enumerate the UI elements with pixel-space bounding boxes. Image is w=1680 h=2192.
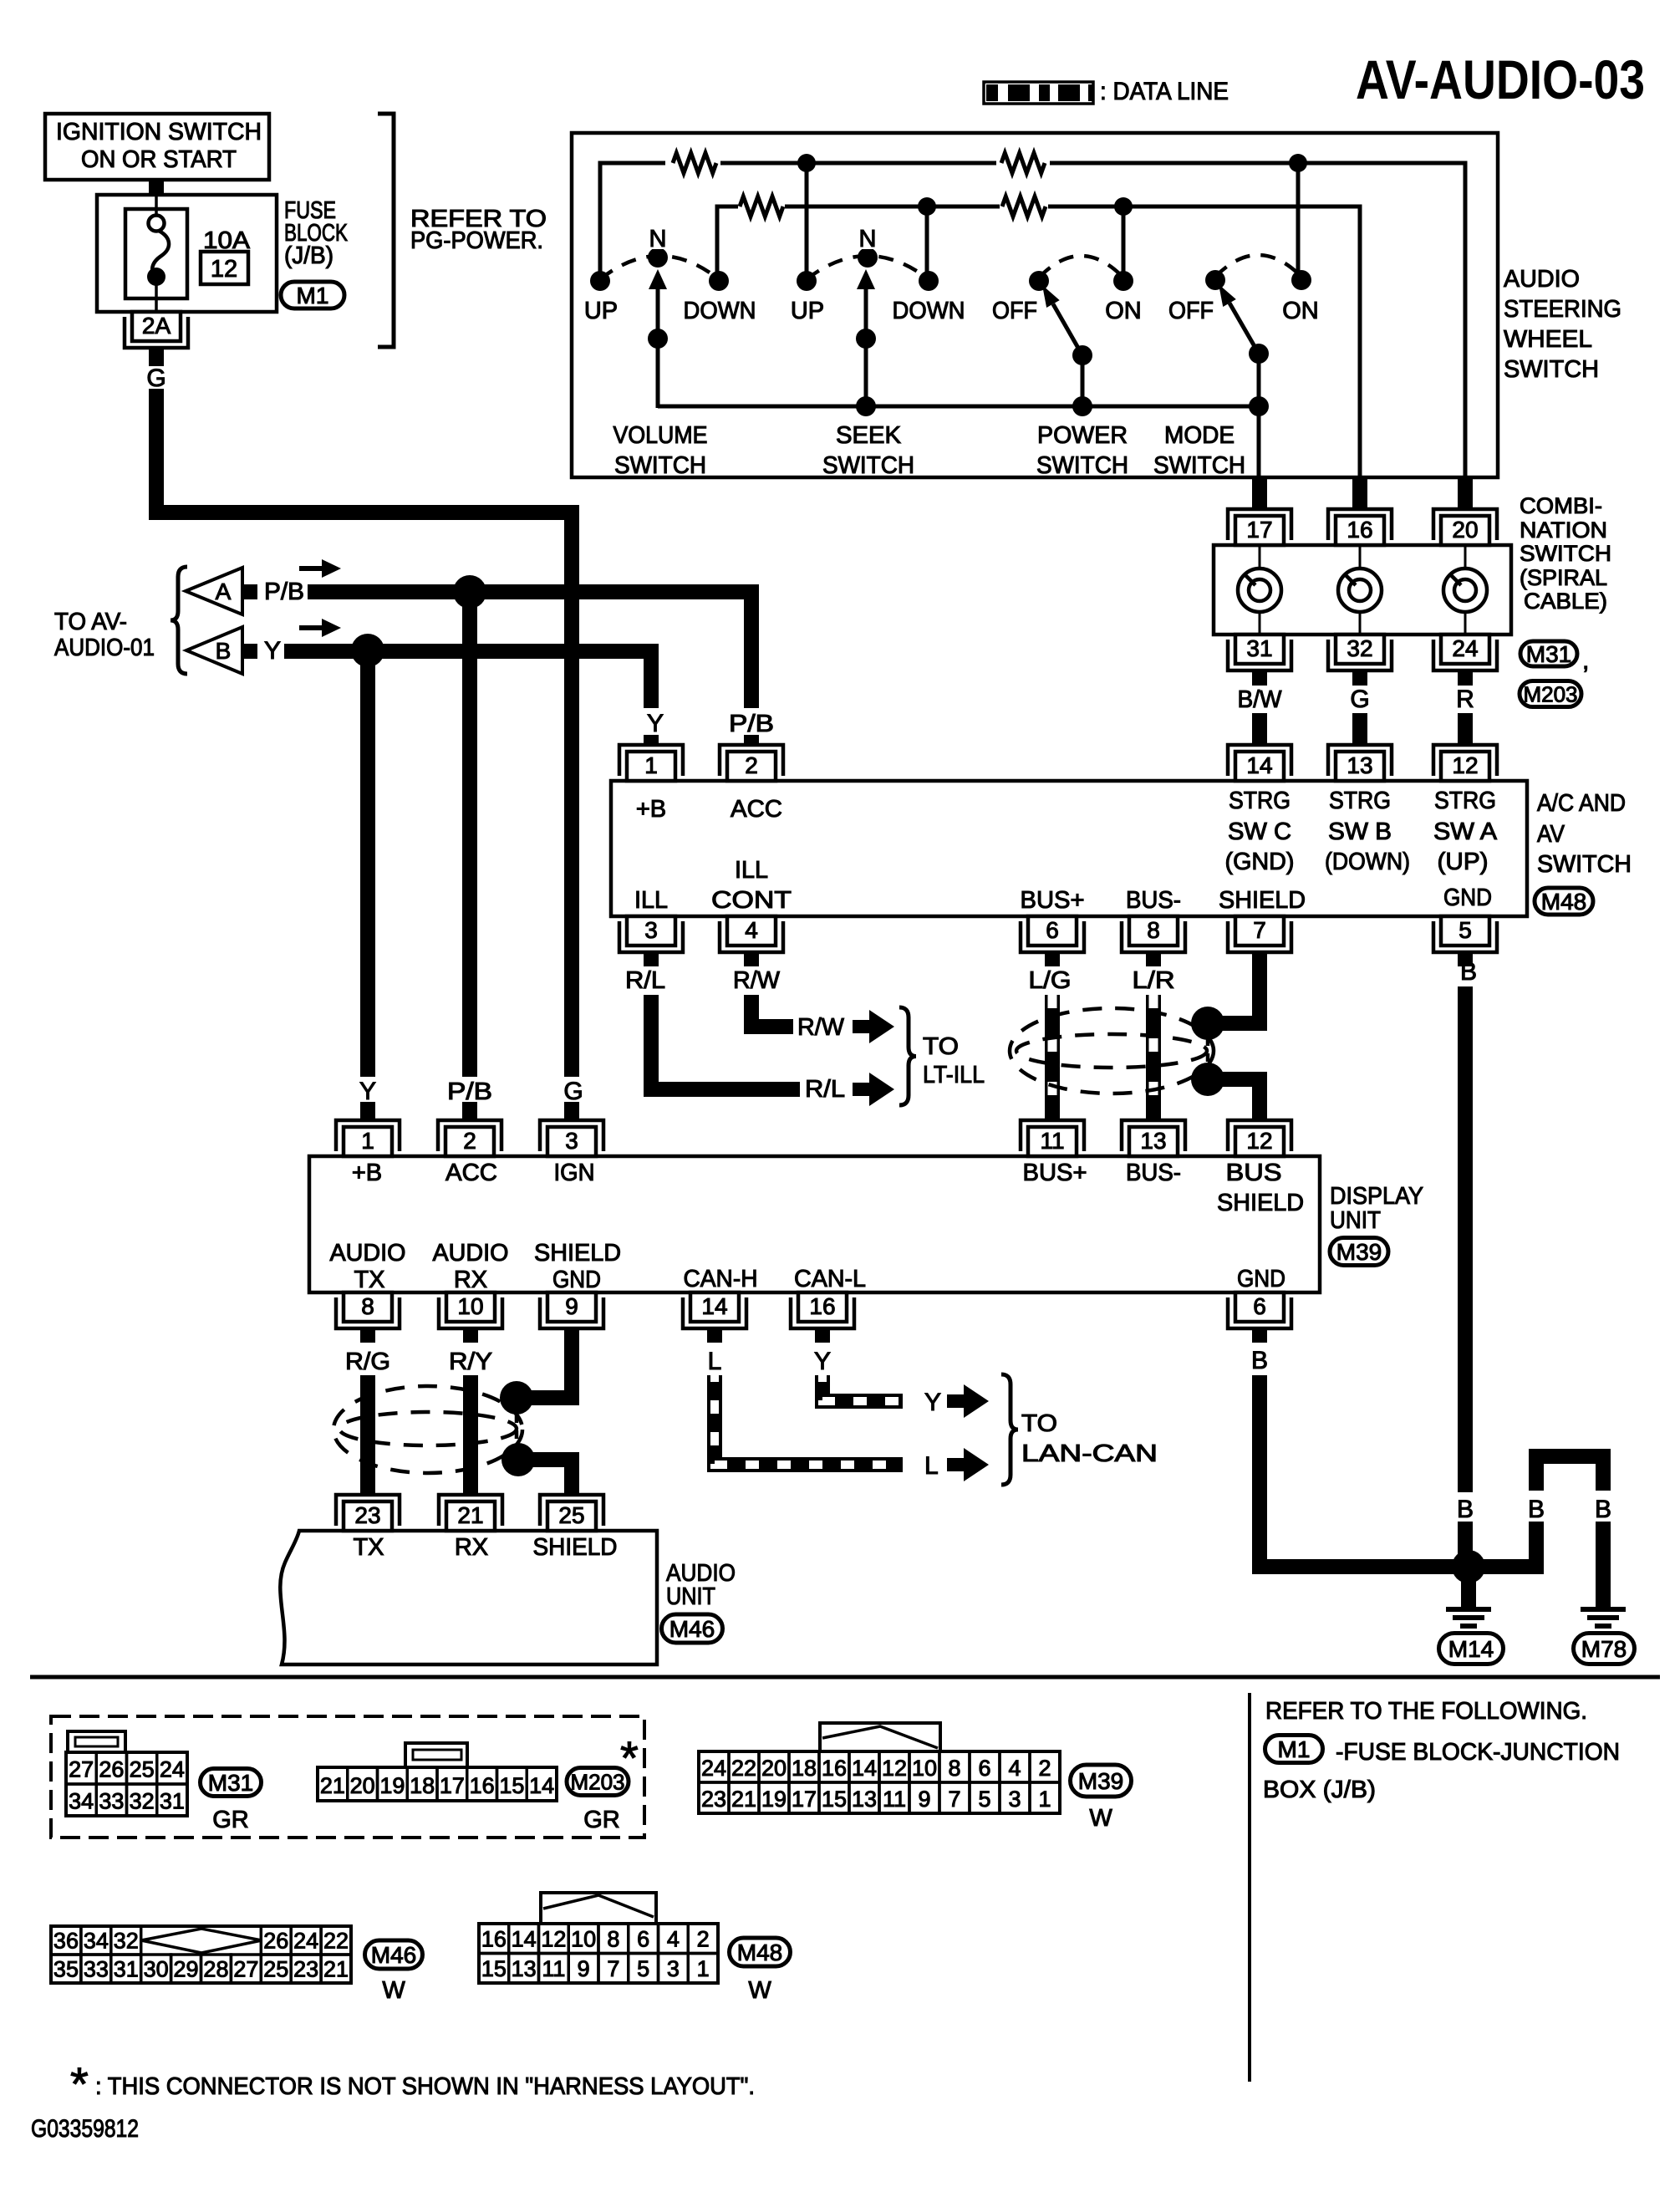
svg-text:TO: TO [923, 1033, 959, 1060]
svg-text:Y: Y [264, 637, 281, 665]
dashed link shield junctions [1206, 1037, 1210, 1067]
pin 13 M48 [1328, 745, 1392, 776]
connector M1 oval [281, 282, 344, 308]
svg-text:33: 33 [84, 1957, 109, 1982]
connector M48 label oval [730, 1938, 791, 1966]
svg-text:+B: +B [636, 796, 666, 823]
data line CAN-L [822, 1375, 903, 1401]
power switch lever [1053, 304, 1082, 355]
svg-text:17: 17 [1246, 517, 1272, 543]
svg-text:UP: UP [584, 298, 618, 324]
svg-text:8: 8 [1147, 917, 1160, 943]
svg-text:32: 32 [130, 1789, 155, 1814]
junction shield lower [1191, 1063, 1224, 1096]
svg-text:(DOWN): (DOWN) [1325, 849, 1410, 875]
arrow to LT-ILL lower [853, 1083, 871, 1096]
svg-text:L: L [708, 1348, 722, 1375]
svg-text:G: G [146, 364, 165, 392]
svg-text:22: 22 [731, 1756, 756, 1781]
svg-text:RX: RX [454, 1267, 487, 1293]
connector arrow A [186, 568, 242, 614]
svg-text:18: 18 [792, 1756, 817, 1781]
svg-text:P/B: P/B [447, 1078, 492, 1105]
svg-text:IGNITION SWITCH: IGNITION SWITCH [56, 119, 262, 145]
wire ignition to fuse block [149, 178, 164, 196]
svg-text:GND: GND [552, 1267, 601, 1293]
svg-text:24: 24 [701, 1756, 726, 1781]
svg-text:STRG: STRG [1329, 788, 1391, 814]
display unit box M39 [309, 1156, 1320, 1292]
svg-text:SW B: SW B [1328, 818, 1392, 845]
svg-text:SHIELD: SHIELD [533, 1534, 618, 1561]
svg-text:(SPIRAL: (SPIRAL [1520, 565, 1607, 590]
svg-text:11: 11 [883, 1787, 906, 1812]
svg-text:LT-ILL: LT-ILL [923, 1062, 985, 1088]
svg-text:34: 34 [84, 1929, 109, 1954]
svg-text:DISPLAY: DISPLAY [1330, 1183, 1423, 1210]
svg-text:AUDIO-01: AUDIO-01 [54, 635, 155, 661]
pin 23 audio unit [336, 1495, 400, 1526]
svg-text:ACC: ACC [731, 796, 782, 823]
svg-text:11: 11 [1040, 1128, 1064, 1154]
pin 14 display [683, 1297, 746, 1328]
svg-text:ON: ON [1282, 298, 1319, 324]
volume common [648, 329, 668, 349]
seek switch arc [807, 256, 929, 279]
svg-text:UNIT: UNIT [666, 1583, 715, 1610]
svg-text:3: 3 [1008, 1787, 1021, 1812]
svg-text:SWITCH: SWITCH [1036, 452, 1128, 479]
svg-text:M14: M14 [1448, 1636, 1494, 1662]
svg-text:B: B [1595, 1496, 1611, 1523]
svg-text:14: 14 [701, 1293, 727, 1319]
svg-text:BUS: BUS [1226, 1160, 1282, 1186]
svg-text:M39: M39 [1336, 1239, 1382, 1265]
svg-text:BUS+: BUS+ [1021, 887, 1085, 914]
pin 16 display [791, 1297, 854, 1328]
svg-text:31: 31 [160, 1789, 185, 1814]
data line CAN-H [715, 1375, 903, 1465]
wire R/Y to audio pin 21 [463, 1375, 478, 1496]
svg-text:6: 6 [978, 1756, 990, 1781]
svg-text:B: B [1457, 1496, 1474, 1523]
svg-text:B: B [1528, 1496, 1545, 1523]
junction bus A seek [797, 154, 816, 172]
svg-text:-FUSE BLOCK-JUNCTION: -FUSE BLOCK-JUNCTION [1336, 1739, 1620, 1766]
junction audio shield lower [501, 1443, 535, 1476]
svg-text:SWITCH: SWITCH [1504, 356, 1599, 383]
svg-text:P/B: P/B [729, 711, 774, 737]
svg-text:15: 15 [822, 1787, 847, 1812]
mode switch lever [1229, 303, 1259, 354]
svg-text:28: 28 [203, 1957, 228, 1982]
svg-text:16: 16 [809, 1293, 835, 1319]
power switch contacts [1029, 271, 1049, 291]
connector M46 oval [662, 1614, 723, 1643]
svg-text:B: B [1251, 1347, 1268, 1374]
svg-text:25: 25 [130, 1757, 155, 1782]
svg-text:POWER: POWER [1037, 422, 1128, 449]
pin 32 combination switch [1328, 640, 1392, 670]
svg-text:2: 2 [697, 1927, 710, 1952]
connector M48 oval [1535, 888, 1593, 915]
svg-text:STRG: STRG [1229, 788, 1291, 814]
svg-text:R/L: R/L [805, 1076, 845, 1103]
svg-text:STEERING: STEERING [1504, 296, 1621, 323]
svg-text:16: 16 [481, 1927, 507, 1952]
svg-text:GR: GR [212, 1807, 249, 1833]
svg-text:13: 13 [1347, 752, 1372, 778]
svg-text:OFF: OFF [1168, 298, 1214, 324]
svg-text:13: 13 [1140, 1128, 1166, 1154]
wire stub pin 4 [744, 952, 759, 966]
svg-text:4: 4 [745, 917, 758, 943]
svg-text:23: 23 [701, 1787, 726, 1812]
svg-text:27: 27 [233, 1957, 258, 1982]
svg-text:STRG: STRG [1434, 788, 1496, 814]
shield ellipse TX/RX pair [333, 1386, 522, 1473]
ground M14 oval [1439, 1634, 1504, 1664]
wire seek DOWN riser [925, 206, 929, 279]
svg-text:29: 29 [174, 1957, 199, 1982]
svg-text:OFF: OFF [992, 298, 1037, 324]
wire B from display GND [1260, 1375, 1455, 1567]
svg-text:24: 24 [1452, 635, 1478, 661]
svg-text:16: 16 [470, 1773, 495, 1798]
wire steering to pin 20 [1458, 477, 1473, 510]
svg-text:10: 10 [457, 1293, 483, 1319]
svg-text:31: 31 [1246, 635, 1272, 661]
svg-text:COMBI-: COMBI- [1520, 493, 1602, 518]
arrow to LT-ILL upper [853, 1020, 871, 1033]
svg-text:G: G [1350, 686, 1369, 713]
svg-text:24: 24 [293, 1929, 318, 1954]
pin 6 M48 [1021, 921, 1084, 952]
svg-text:20: 20 [350, 1773, 375, 1798]
svg-text:23: 23 [354, 1502, 380, 1528]
svg-text:22: 22 [323, 1929, 349, 1954]
mode switch arc [1215, 255, 1301, 277]
svg-text:L: L [924, 1452, 939, 1480]
wire B loop to M78 [1482, 1522, 1536, 1567]
arrow direction P/B [299, 566, 329, 571]
svg-text:13: 13 [852, 1787, 877, 1812]
svg-text:12: 12 [211, 256, 237, 283]
wire P/B to ACC pin 2 of M48 [744, 735, 759, 746]
wire P/B down to display ACC [462, 592, 477, 1077]
A/C and AV switch box M48 [611, 781, 1527, 916]
svg-text:13: 13 [512, 1956, 537, 1981]
resistor R-B2 [1000, 192, 1048, 221]
wire steering to pin 17 [1252, 477, 1267, 510]
ground symbol M78 [1581, 1607, 1626, 1612]
svg-text:BUS-: BUS- [1126, 887, 1181, 914]
svg-text:21: 21 [457, 1502, 483, 1528]
wire BUS+ to display pin 11 (data line) [1045, 995, 1060, 1121]
svg-text:18: 18 [410, 1773, 435, 1798]
fuse block box M1 [97, 195, 277, 312]
svg-text:TO AV-: TO AV- [54, 609, 127, 635]
svg-text:ILL: ILL [634, 887, 668, 914]
connector arrow B [186, 627, 242, 674]
svg-text:19: 19 [761, 1787, 787, 1812]
svg-text:12: 12 [882, 1756, 907, 1781]
wire B from M48 GND [1458, 986, 1473, 1492]
audio unit box M46 [280, 1531, 657, 1664]
svg-text:ILL: ILL [735, 857, 768, 884]
svg-text:UP: UP [791, 298, 824, 324]
svg-text:M203: M203 [570, 1769, 624, 1794]
svg-text:16: 16 [822, 1756, 847, 1781]
svg-text:*: * [70, 2057, 89, 2110]
resistor R-A2 [996, 149, 1050, 177]
pin 3 display [540, 1120, 603, 1151]
svg-text:32: 32 [1347, 635, 1372, 661]
resistor R-B1 [738, 192, 785, 221]
svg-text:TX: TX [354, 1267, 384, 1293]
junction bus B power [1114, 197, 1133, 216]
seek common [856, 329, 876, 349]
svg-text:15: 15 [499, 1773, 524, 1798]
svg-text:16: 16 [1347, 517, 1372, 543]
svg-text:CAN-H: CAN-H [684, 1266, 758, 1292]
ground junction dot [1452, 1550, 1485, 1583]
junction power common [1072, 396, 1092, 416]
svg-text:31: 31 [114, 1957, 139, 1982]
svg-text:34: 34 [69, 1789, 94, 1814]
pin 11 display [1021, 1120, 1084, 1151]
pin 13 display [1122, 1120, 1185, 1151]
svg-text:GR: GR [583, 1807, 620, 1833]
wire switch common bus [658, 405, 1259, 409]
wire G from fuse to display unit IGN [156, 389, 572, 1077]
svg-text:7: 7 [607, 1956, 619, 1981]
svg-text:24: 24 [160, 1757, 185, 1782]
svg-text:GND: GND [1237, 1266, 1285, 1292]
wire stub pin 6 [1045, 952, 1060, 966]
svg-text:B/W: B/W [1238, 686, 1283, 713]
arrow to LAN-CAN upper [947, 1394, 965, 1408]
svg-text:M39: M39 [1078, 1768, 1123, 1794]
pin 3 M48 [619, 921, 683, 952]
svg-text:7: 7 [1253, 917, 1266, 943]
wire stub P/B to display pin 2 [462, 1102, 477, 1121]
svg-text:Y: Y [647, 710, 664, 737]
resistor R-A1 [665, 149, 720, 177]
svg-text:15: 15 [481, 1956, 507, 1981]
pin 21 audio unit [439, 1495, 502, 1526]
wire stub pin 14 [707, 1328, 722, 1343]
svg-text:3: 3 [644, 917, 658, 943]
spiral cable symbol 1 [1259, 545, 1261, 568]
svg-text:LAN-CAN: LAN-CAN [1021, 1440, 1158, 1467]
svg-text:SW A: SW A [1433, 818, 1498, 845]
svg-text:A: A [216, 579, 232, 604]
svg-text:: DATA LINE: : DATA LINE [1100, 78, 1229, 105]
svg-text:1: 1 [361, 1128, 374, 1154]
svg-text:ON OR START: ON OR START [81, 146, 237, 173]
svg-text:M46: M46 [669, 1616, 715, 1642]
svg-text:2: 2 [1038, 1756, 1051, 1781]
svg-text:M78: M78 [1581, 1636, 1627, 1662]
svg-text:WHEEL: WHEEL [1504, 326, 1592, 353]
svg-text:M31: M31 [208, 1770, 253, 1796]
svg-text:Y: Y [924, 1389, 941, 1416]
svg-text:21: 21 [320, 1773, 345, 1798]
power switch arc [1039, 256, 1123, 278]
svg-text:3: 3 [565, 1128, 578, 1154]
dashed link audio shield junctions [515, 1415, 519, 1445]
dashed connector group box [51, 1716, 644, 1838]
svg-text:8: 8 [948, 1756, 960, 1781]
svg-text:W: W [382, 1977, 405, 2004]
svg-text:CAN-L: CAN-L [794, 1266, 866, 1292]
svg-text:9: 9 [565, 1293, 578, 1319]
connector M203 label oval [567, 1768, 629, 1796]
svg-text:6: 6 [637, 1927, 649, 1952]
svg-text:AUDIO: AUDIO [433, 1240, 509, 1267]
wire stub pin 6 display [1252, 1328, 1267, 1343]
wire stub G to display pin 3 [564, 1102, 579, 1121]
shield ellipse BUS pair [1010, 1008, 1214, 1093]
svg-text:Y: Y [814, 1348, 831, 1375]
svg-text:SEEK: SEEK [836, 422, 902, 449]
svg-text:21: 21 [323, 1957, 349, 1982]
svg-text:G: G [563, 1078, 583, 1105]
svg-text:R/Y: R/Y [449, 1348, 492, 1375]
svg-text:BUS-: BUS- [1126, 1160, 1181, 1186]
svg-text:W: W [1089, 1805, 1112, 1832]
wire seek UP riser [805, 163, 809, 279]
svg-text:(GND): (GND) [1225, 849, 1295, 875]
junction audio shield upper [500, 1381, 533, 1415]
wire R/W to LT-ILL [751, 995, 793, 1027]
svg-text:G03359812: G03359812 [31, 2115, 139, 2143]
wire shield junction to audio pin 25 [518, 1460, 572, 1496]
wire B loop top [1536, 1456, 1603, 1491]
label N volume [644, 224, 672, 249]
fuse number 12 box [201, 252, 248, 284]
fuse F12 symbol [125, 209, 187, 298]
svg-text:2A: 2A [142, 313, 171, 339]
svg-text:CONT: CONT [711, 887, 792, 914]
svg-text:(J/B): (J/B) [284, 242, 333, 269]
svg-text:SWITCH: SWITCH [614, 452, 706, 479]
svg-text:B: B [1460, 958, 1477, 986]
mode common [1249, 344, 1269, 364]
svg-text:12: 12 [1246, 1128, 1272, 1154]
wire stub below 2A [149, 348, 164, 366]
svg-text:25: 25 [263, 1957, 288, 1982]
pin 2A of fuse block [125, 317, 188, 348]
brace TO LAN-CAN [1001, 1374, 1018, 1485]
wire stub pin 10 [463, 1328, 478, 1343]
svg-text:12: 12 [541, 1927, 566, 1952]
pin 2 display [438, 1120, 501, 1151]
svg-text:7: 7 [948, 1787, 960, 1812]
connector M31 label oval [201, 1769, 262, 1797]
svg-text:5: 5 [1459, 917, 1472, 943]
mode switch contacts [1205, 270, 1225, 290]
junction shield upper [1191, 1007, 1224, 1040]
svg-text:14: 14 [512, 1927, 537, 1952]
svg-text:CABLE): CABLE) [1524, 589, 1607, 614]
svg-text:NATION: NATION [1520, 517, 1607, 543]
svg-text:M31: M31 [1526, 641, 1571, 667]
svg-text:6: 6 [1253, 1293, 1266, 1319]
connector M31 pin grid [68, 1731, 125, 1753]
svg-text:: THIS CONNECTOR IS NOT SHOWN: : THIS CONNECTOR IS NOT SHOWN IN "HARNES… [95, 2073, 755, 2100]
svg-text:N: N [859, 226, 877, 252]
arrow to LAN-CAN lower [947, 1458, 965, 1471]
svg-text:17: 17 [792, 1787, 817, 1812]
svg-text:21: 21 [731, 1787, 756, 1812]
connector M39 pin grid [820, 1723, 940, 1751]
wire junction to M14 ground [1461, 1580, 1476, 1607]
wire steering to pin 16 [1352, 477, 1367, 510]
wire stub pin 3 [644, 952, 659, 966]
pin 1 display [336, 1120, 400, 1151]
svg-text:N: N [649, 226, 667, 252]
svg-text:DOWN: DOWN [893, 298, 965, 324]
svg-text:20: 20 [761, 1756, 787, 1781]
connector M39 label oval [1071, 1765, 1132, 1797]
ground symbol M14 [1446, 1607, 1491, 1612]
svg-text:23: 23 [293, 1957, 318, 1982]
wire BUS- to display pin 13 (data line) [1146, 995, 1161, 1121]
connector M31 oval [1520, 641, 1577, 666]
wire Y horizontal [284, 651, 651, 708]
svg-text:SWITCH: SWITCH [1537, 851, 1632, 878]
label N seek [853, 224, 882, 249]
svg-text:M1: M1 [297, 283, 329, 308]
svg-text:6: 6 [1046, 917, 1059, 943]
svg-text:14: 14 [852, 1756, 877, 1781]
wire R/G to audio pin 23 [360, 1375, 375, 1496]
wire resistor bus B [717, 206, 1360, 477]
wire mode ON riser [1296, 163, 1301, 278]
svg-text:M1: M1 [1278, 1736, 1311, 1762]
svg-text:AV-AUDIO-03: AV-AUDIO-03 [1356, 48, 1645, 110]
pin 14 M48 [1228, 745, 1291, 776]
svg-text:M48: M48 [737, 1940, 782, 1965]
svg-text:(UP): (UP) [1438, 849, 1489, 875]
pin 1 M48 [619, 745, 683, 776]
power common [1072, 345, 1092, 365]
svg-text:3: 3 [667, 1956, 680, 1981]
svg-text:VOLUME: VOLUME [613, 422, 708, 449]
pin 10 display [439, 1297, 502, 1328]
svg-text:L/R: L/R [1133, 967, 1175, 994]
connector M39 oval [1330, 1238, 1388, 1266]
svg-text:MODE: MODE [1164, 422, 1235, 449]
svg-text:10: 10 [571, 1927, 596, 1952]
svg-text:10: 10 [912, 1756, 937, 1781]
svg-text:GND: GND [1443, 884, 1492, 911]
junction seek common [856, 396, 876, 416]
svg-text:SWITCH: SWITCH [1520, 541, 1611, 566]
svg-text:1: 1 [644, 752, 658, 778]
svg-text:20: 20 [1452, 517, 1478, 543]
wire stub Y to display pin 1 [360, 1102, 375, 1121]
svg-text:19: 19 [379, 1773, 405, 1798]
wire pin31 to pin14 [1252, 671, 1267, 686]
svg-text:11: 11 [542, 1956, 565, 1981]
ground M78 oval [1574, 1634, 1635, 1664]
pin 4 M48 [720, 921, 783, 952]
svg-text:1: 1 [697, 1956, 710, 1981]
svg-text:IGN: IGN [554, 1160, 595, 1186]
